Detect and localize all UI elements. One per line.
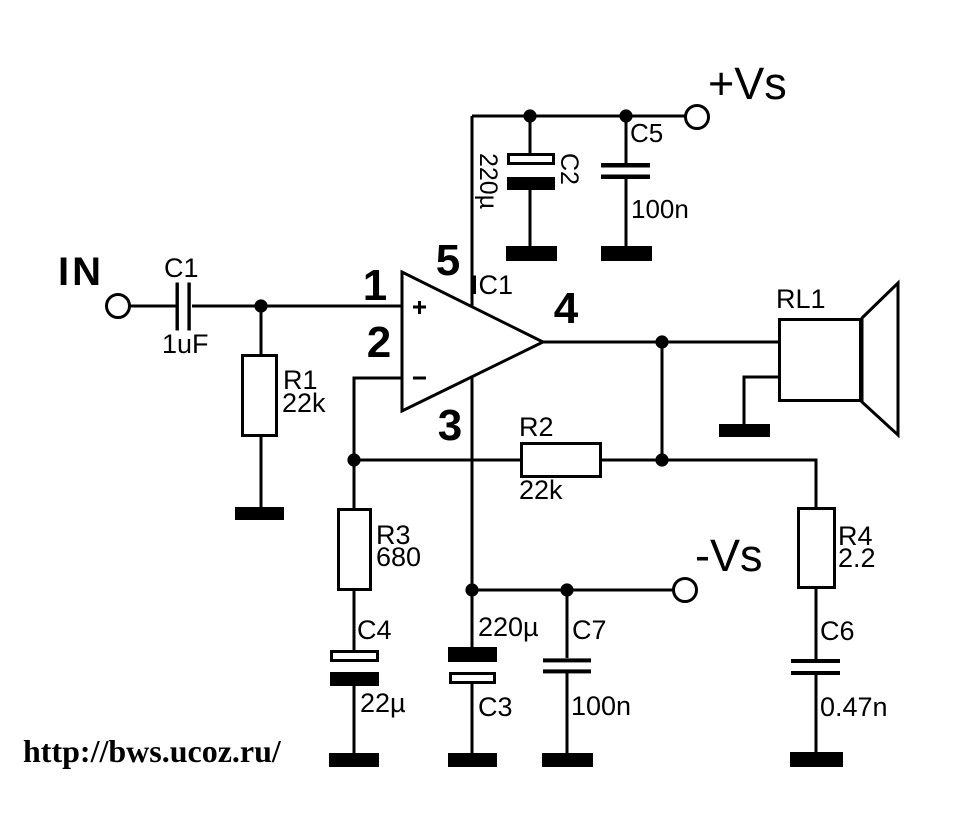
- wire C1 to op-amp pin1: [192, 305, 402, 308]
- ground R1: [235, 507, 284, 520]
- capacitor C7: [543, 658, 591, 673]
- wire +Vs rail: [472, 115, 686, 118]
- ground C2: [506, 246, 557, 261]
- svg-text:2.2: 2.2: [838, 543, 876, 573]
- wire RL1 ground stub: [744, 377, 778, 424]
- node input junction: [254, 299, 267, 312]
- svg-text:680: 680: [376, 542, 421, 572]
- svg-text:100n: 100n: [631, 194, 689, 224]
- wire pin5 vertical to op-amp: [471, 116, 474, 307]
- wire feedback rail right to R4: [602, 460, 816, 507]
- wire C5 top stem: [625, 116, 628, 164]
- terminal +Vs: [686, 106, 709, 129]
- svg-text:C3: C3: [478, 692, 513, 722]
- svg-text:0.47n: 0.47n: [820, 692, 888, 722]
- terminal -Vs: [674, 579, 697, 602]
- capacitor C2: [507, 155, 555, 191]
- capacitor C4: [330, 652, 379, 687]
- node -Vs C7 junction: [560, 583, 573, 596]
- svg-text:22k: 22k: [282, 388, 326, 418]
- node output junction: [655, 335, 668, 348]
- svg-text:R2: R2: [519, 412, 554, 442]
- wire C3 top stem: [471, 590, 474, 647]
- resistor R3: [339, 510, 371, 590]
- svg-text:220µ: 220µ: [478, 612, 539, 642]
- svg-text:22µ: 22µ: [360, 688, 406, 718]
- node feedback junction: [347, 453, 360, 466]
- node C5 rail junction: [619, 109, 632, 122]
- wire op-amp output to RL1: [543, 341, 778, 344]
- capacitor C3: [448, 647, 497, 683]
- wire C5 bottom stem: [625, 177, 628, 247]
- svg-text:C4: C4: [357, 615, 392, 645]
- wire C2 bottom stem: [529, 189, 532, 247]
- resistor R2: [522, 444, 601, 477]
- wire R3 top stem: [353, 460, 356, 508]
- node C2 rail junction: [523, 109, 536, 122]
- wire R4 to C6: [815, 589, 818, 659]
- capacitor C6: [791, 659, 840, 675]
- svg-text:C6: C6: [820, 616, 855, 646]
- svg-text:2: 2: [367, 318, 391, 367]
- resistor R1: [243, 356, 277, 436]
- svg-text:C1: C1: [164, 253, 199, 283]
- wire C6 bottom stem: [815, 673, 818, 752]
- capacitor C5: [601, 163, 650, 179]
- svg-text:5: 5: [436, 236, 460, 285]
- svg-text:1: 1: [363, 261, 387, 310]
- svg-text:-Vs: -Vs: [695, 530, 763, 581]
- svg-text:RL1: RL1: [776, 284, 826, 314]
- wire -Vs rail: [472, 589, 674, 592]
- capacitor C1: [176, 283, 191, 331]
- wire pin2 inverting input: [354, 378, 402, 460]
- svg-text:220µ: 220µ: [474, 153, 502, 209]
- svg-text:22k: 22k: [519, 475, 563, 505]
- ground C7: [542, 753, 593, 767]
- terminal IN: [107, 295, 130, 318]
- wire output to feedback vertical: [661, 342, 664, 460]
- svg-text:IC1: IC1: [471, 270, 513, 300]
- svg-text:C2: C2: [555, 153, 583, 185]
- speaker RL1: [780, 283, 899, 435]
- svg-text:http://bws.ucoz.ru/: http://bws.ucoz.ru/: [23, 733, 282, 769]
- svg-text:1uF: 1uF: [162, 329, 209, 359]
- node output feedback junction: [655, 453, 668, 466]
- wire R1 top stem: [260, 306, 263, 354]
- wire C7 top stem: [566, 590, 569, 658]
- wire pin3 vertical to -Vs rail: [471, 377, 474, 590]
- wire C4 bottom stem: [353, 686, 356, 753]
- ground C6: [790, 752, 843, 767]
- wire R3 to C4: [353, 591, 356, 650]
- ground C4: [329, 753, 379, 767]
- op-amp IC1: [402, 272, 543, 411]
- svg-text:4: 4: [554, 284, 579, 333]
- svg-text:+Vs: +Vs: [708, 58, 787, 109]
- svg-text:3: 3: [438, 401, 462, 450]
- wire C2 top stem: [529, 116, 532, 153]
- ground C5: [601, 246, 652, 261]
- ground C3: [448, 753, 497, 767]
- svg-text:C7: C7: [572, 615, 607, 645]
- wire C7 bottom stem: [566, 673, 569, 753]
- svg-text:IN: IN: [58, 250, 104, 294]
- node -Vs C3 junction: [465, 583, 478, 596]
- ground RL1: [719, 424, 770, 437]
- wire R1 bottom stem: [260, 437, 263, 508]
- svg-text:100n: 100n: [571, 691, 631, 721]
- svg-text:C5: C5: [630, 118, 663, 148]
- wire IN terminal to C1: [129, 305, 176, 308]
- wire C3 bottom stem: [471, 684, 474, 753]
- resistor R4: [799, 509, 835, 588]
- wire feedback rail left: [354, 459, 520, 462]
